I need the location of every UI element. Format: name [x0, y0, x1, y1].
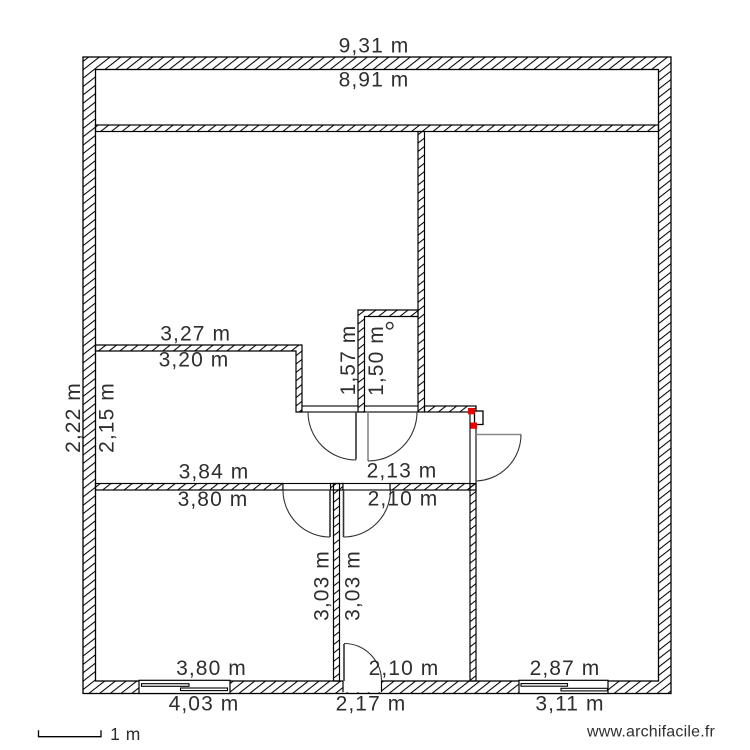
svg-text:3,84 m: 3,84 m [179, 461, 250, 484]
svg-text:3,11 m: 3,11 m [535, 693, 604, 716]
degree circle after 1,50 m [386, 322, 393, 329]
svg-text:2,87 m: 2,87 m [530, 657, 601, 680]
door frame white box at wall F top [475, 411, 484, 425]
svg-text:1 m: 1 m [110, 724, 141, 744]
wall E1 segment (right of small room) [425, 406, 477, 412]
door D4 opening band [343, 484, 390, 491]
door D1 opening band [302, 406, 358, 412]
door D6 leaf + arc (into right room) [476, 435, 521, 482]
door D5 entrance leaf + arc [344, 644, 382, 682]
outer wall ring [83, 57, 671, 694]
door D2 opening band (small room bottom) [365, 406, 419, 412]
red marker square 2 [470, 423, 477, 429]
svg-text:3,80 m: 3,80 m [176, 657, 247, 680]
wall E2 middle segment [331, 484, 344, 491]
door D1 leaf + arc [308, 412, 356, 460]
red marker square 1 [468, 408, 475, 414]
svg-text:3,03 m: 3,03 m [342, 550, 365, 621]
svg-text:2,10 m: 2,10 m [369, 657, 440, 680]
svg-text:9,31 m: 9,31 m [339, 35, 410, 58]
door D3 opening band [283, 484, 331, 491]
svg-text:3,27 m: 3,27 m [160, 322, 231, 345]
wall E2 left segment [96, 484, 284, 491]
svg-text:1,50 m: 1,50 m [365, 325, 388, 396]
door D2 leaf + arc [368, 412, 417, 461]
wall E2 right segment [390, 484, 476, 491]
svg-text:2,10 m: 2,10 m [368, 488, 439, 511]
svg-text:3,80 m: 3,80 m [178, 488, 249, 511]
scale bar bracket [39, 730, 102, 736]
interior wall B (vertical) [418, 132, 425, 413]
svg-text:2,15 m: 2,15 m [96, 382, 119, 453]
walls C + D (L-shape) [96, 345, 303, 412]
interior wall A (full width, under top corridor) [96, 125, 659, 132]
svg-text:1,57 m: 1,57 m [337, 325, 360, 396]
small room top + left walls [358, 310, 418, 412]
door D6 opening band (vertical, wall F top) [470, 412, 476, 484]
window W2 bottom-right [519, 680, 608, 693]
svg-text:4,03 m: 4,03 m [169, 693, 240, 716]
svg-text:www.archifacile.fr: www.archifacile.fr [586, 724, 716, 741]
svg-text:8,91 m: 8,91 m [339, 69, 410, 92]
wall F (vertical, right of bottom-middle room) [470, 484, 476, 682]
svg-text:2,13 m: 2,13 m [367, 460, 438, 483]
door D3 leaf + arc [283, 490, 330, 537]
entrance door opening in bottom wall [343, 679, 382, 692]
door D4 leaf + arc [344, 490, 391, 537]
svg-text:3,03 m: 3,03 m [311, 550, 334, 621]
wall G (vertical, bottom middle) [334, 484, 340, 682]
svg-text:2,17 m: 2,17 m [336, 693, 407, 716]
svg-text:3,20 m: 3,20 m [159, 348, 230, 371]
svg-text:2,22 m: 2,22 m [62, 382, 85, 453]
window W1 bottom-left [139, 680, 230, 693]
